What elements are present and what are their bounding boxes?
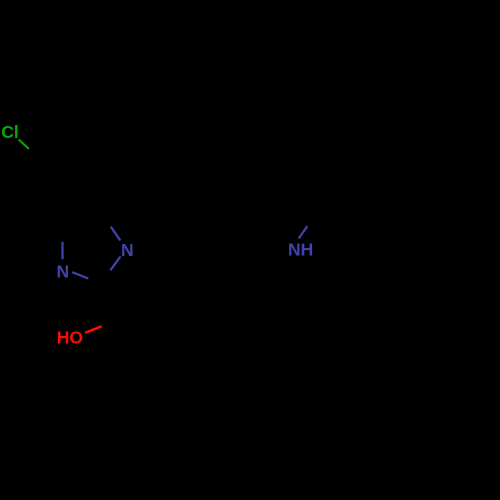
svg-text:Cl: Cl	[1, 122, 19, 142]
svg-text:NH: NH	[288, 239, 313, 259]
svg-text:HO: HO	[57, 328, 83, 348]
svg-text:N: N	[57, 261, 70, 281]
svg-text:N: N	[121, 240, 134, 260]
